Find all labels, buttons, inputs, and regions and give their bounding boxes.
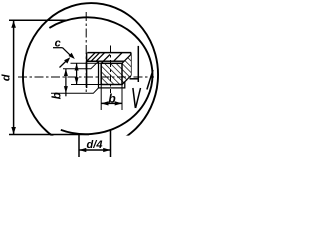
- b outer bent extension bottom: [51, 88, 99, 93]
- c arrow lower shaft: [60, 61, 67, 68]
- back hole edge vertical: [137, 46, 139, 82]
- b vertical extension bottom (straight): [71, 84, 122, 86]
- oblique edge from front-right corner: [122, 55, 131, 64]
- b inner arrow up: [75, 63, 79, 70]
- hatched right band: [122, 55, 131, 85]
- hole inner edge left slant: [133, 88, 136, 108]
- d dimension line: [13, 20, 15, 134]
- box: back right vertical: [130, 53, 132, 76]
- top band diagonal 3: [114, 53, 123, 62]
- d arrow down: [11, 127, 16, 134]
- top band diagonal 2: [96, 53, 105, 62]
- back hole edge horizontal: [130, 78, 139, 80]
- hole inner edge upper slant: [147, 70, 153, 90]
- d/4 arrow right: [103, 148, 110, 152]
- chamfer front square: [99, 61, 125, 88]
- top band diagonal 1: [91, 53, 100, 62]
- d/4 extension line left: [78, 133, 80, 157]
- hole inner edge right slant: [136, 88, 141, 108]
- b outer arrow up: [64, 69, 68, 76]
- box vertical centerline: [110, 46, 112, 94]
- b horizontal arrow right: [115, 101, 122, 105]
- box: left vertical V2: [86, 53, 88, 88]
- d/4 dimension line: [79, 149, 111, 151]
- c arrow upper head: [69, 53, 75, 59]
- box: back square top line T1: [87, 52, 131, 54]
- oblique edge from front-left corner: [101, 55, 110, 64]
- b outer dimension line: [65, 69, 67, 97]
- b vertical extension top (straight): [71, 62, 102, 64]
- oblique edge far-left: [87, 53, 96, 62]
- svg-text:d/4: d/4: [87, 139, 103, 151]
- d arrow up: [11, 21, 16, 28]
- b horizontal extension left: [100, 85, 102, 111]
- b horizontal arrow left: [101, 101, 108, 105]
- bottom extension line: [9, 134, 89, 136]
- top extension line: [9, 19, 68, 21]
- svg-text:b: b: [108, 92, 115, 106]
- b inner arrow down: [75, 77, 79, 84]
- hatched front square: [101, 63, 122, 84]
- c arrow lower head: [64, 57, 70, 63]
- b horizontal dimension line: [101, 102, 122, 104]
- svg-text:b: b: [52, 92, 64, 99]
- sphere circle arc: [49, 17, 152, 134]
- b horizontal extension right: [121, 85, 123, 111]
- c arrow upper shaft: [63, 48, 72, 57]
- horizontal centerline: [18, 76, 154, 78]
- b vertical dimension line (inner): [76, 63, 78, 84]
- oblique edge bottom-right: [122, 76, 131, 85]
- c leader line: [53, 47, 63, 49]
- d/4 arrow left: [79, 148, 86, 152]
- d/4 extension line right: [110, 129, 112, 157]
- box: long top line T2: [87, 60, 131, 62]
- vertical centerline: [85, 12, 87, 93]
- svg-text:d: d: [0, 74, 12, 81]
- b outer arrow down: [64, 86, 68, 93]
- b outer bent extension top: [63, 61, 99, 69]
